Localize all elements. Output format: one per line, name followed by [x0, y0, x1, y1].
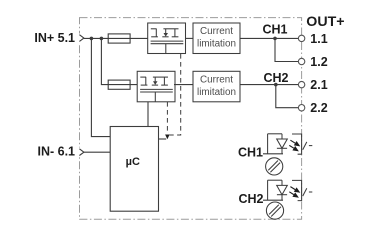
node junction A (rail to µC) [90, 37, 94, 41]
fuse F1 [108, 34, 130, 43]
svg-text:Current: Current [200, 26, 233, 37]
adjustment screw S2 (CH2) [266, 202, 283, 219]
wire Q2 to current limitation 2 [174, 84, 193, 86]
node junction B (rail to channel 2) [100, 37, 104, 41]
dashed control line from Q2 [166, 102, 168, 133]
LED D2 circuit CH2 [263, 180, 287, 200]
fuse F2 [108, 80, 130, 89]
svg-text:limitation: limitation [197, 87, 236, 98]
terminal circle 2.1 [298, 81, 304, 87]
border gap at IN- terminal [78, 148, 82, 158]
wire rail to channel 2 fuse F2 [101, 38, 137, 84]
svg-text:CH2: CH2 [239, 192, 264, 206]
wire Q1 to current limitation 1 [186, 37, 194, 39]
wire µC measurement stub [159, 138, 167, 140]
node junction CH1 [273, 37, 277, 41]
LED D1 circuit CH1 [263, 134, 287, 154]
wire supply rail to µC [91, 38, 110, 136]
terminal circle 1.1 [298, 35, 304, 41]
device outline (dash-dot phantom border) [80, 18, 302, 220]
wire µC gate drive to Q2 [147, 102, 149, 127]
terminal circle 1.2 [298, 58, 304, 64]
front panel light outlet CH1 [292, 134, 312, 154]
terminal circle 2.2 [298, 105, 304, 111]
border gap at IN+ terminal [78, 34, 82, 44]
wire IN+ to MOSFET Q1 (through fuse F1) [84, 37, 148, 39]
terminal chevron IN- 6.1 [79, 149, 84, 156]
MOSFET Q1 box [148, 23, 186, 54]
svg-text:µC: µC [126, 156, 140, 168]
adjustment screw S1 (CH1) [266, 158, 283, 175]
svg-text:2.2: 2.2 [310, 101, 327, 115]
svg-text:IN- 6.1: IN- 6.1 [37, 145, 77, 159]
front panel light outlet CH2 [292, 180, 312, 200]
svg-text:Current: Current [200, 74, 233, 85]
MOSFET Q2 box [137, 71, 175, 102]
wire branch to terminal 1.2 [275, 38, 298, 61]
svg-text:2.1: 2.1 [310, 78, 327, 92]
wire branch to terminal 2.2 [276, 85, 299, 108]
svg-text:limitation: limitation [197, 39, 236, 50]
svg-text:IN+ 5.1: IN+ 5.1 [34, 31, 77, 45]
current limitation block 2 [193, 71, 240, 102]
dashed control line from Q1 [169, 54, 180, 135]
svg-text:OUT+: OUT+ [306, 14, 344, 30]
control arrow into µC stub [165, 135, 170, 140]
svg-text:1.2: 1.2 [310, 55, 327, 69]
wire CL1 to terminal 1.1 [240, 37, 298, 39]
wire CL2 to terminal 2.1 [240, 84, 298, 86]
svg-text:CH1: CH1 [262, 22, 287, 36]
wire IN- to µC [84, 151, 110, 153]
terminal chevron IN+ 5.1 [79, 35, 84, 42]
svg-text:CH1: CH1 [238, 146, 263, 160]
LED D2 emission arrows [289, 187, 300, 198]
current limitation block 1 [193, 23, 240, 54]
microcontroller U1 (µC) [110, 127, 158, 212]
LED D1 emission arrows [289, 140, 300, 151]
svg-text:1.1: 1.1 [310, 32, 327, 46]
node junction CH2 [274, 83, 278, 87]
